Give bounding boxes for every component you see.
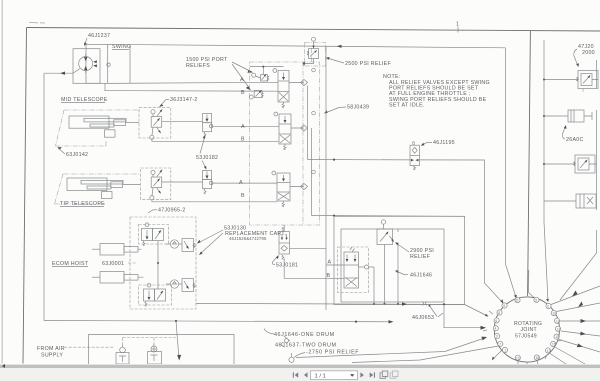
check diamond sec3 [290,184,308,190]
joint ports right column [546,303,551,308]
joint port numbers [495,298,561,360]
2900 PSI relief valve [381,220,385,224]
hoist cartridge 1 [170,240,178,248]
2500 PSI relief valve enclosure [305,43,326,67]
drop from winch box corner to port8 [465,305,488,317]
port relief B swing [254,90,262,97]
right relief valve 1 [578,71,598,89]
toolbar last-page button [370,372,374,377]
one/two drum tick marks [284,336,290,342]
wire to port4 [444,304,485,328]
winch valve dashed box [338,247,369,293]
winch valve port circle [365,265,369,269]
right relief valve 3 [575,155,595,173]
right column vertical [560,60,597,300]
hoist cylinder 1 [100,244,124,256]
bank spool section 1 [278,71,289,103]
wire tip rod to CB [123,184,140,186]
drop line to joint port10 [506,264,517,298]
drop to bottom left [176,321,179,359]
air supply box [89,335,235,365]
toolbar rotate icon 2 [390,371,398,378]
wire to port3 gauge line [296,338,486,358]
bank internal right rails [308,86,312,216]
joint ports bottom [515,355,520,360]
bank spool section 3 [277,173,290,201]
swing pump aux box [86,44,108,83]
viewer left edge line [1,0,3,364]
bottom rail y304 [196,303,465,304]
hoist cartridge 2 [170,280,178,288]
toolbar next button [360,372,375,377]
joint ports left column [493,297,560,360]
toolbar page box [311,371,358,380]
horizontal scrollbar strip [0,364,600,370]
hoist valve B dashed sub-box [139,285,172,305]
winch directional valve [344,252,359,288]
tip CB valve dashed box [141,168,171,200]
toolbar background [0,368,600,381]
left supply drop wire [43,73,45,320]
toolbar rotate icon 1 [380,371,388,378]
mid CB valve dashed box [139,108,171,138]
pressure gauge [289,357,294,362]
pump control arrows [93,60,97,63]
bottom rail y320 [44,321,391,322]
wire bank to 46J1195 to drop [308,160,503,303]
hoist valve B body [144,289,155,301]
wire 53J0182b to bank sec3 [212,182,277,184]
right fan line 1 [551,286,600,305]
leader to pump [85,38,88,45]
port1 line out [493,350,503,360]
wire tip CB to 53J0182b [162,181,203,183]
right fan line 6 [555,347,585,364]
toolbar first-page button [293,372,308,377]
wire 53J0182 to bank sec2 [212,125,279,127]
right fan line 3 [560,320,600,322]
swing section rail [250,67,284,75]
wire sec3 B [152,200,277,202]
rotating joint circle [494,297,559,362]
right component 4 [576,194,596,208]
hoist cylinder 2 [100,272,124,284]
pump circle [79,57,93,71]
big enclosure box [326,46,506,310]
joint hatch marks [483,311,562,359]
right fan line 5 [559,340,600,353]
port7 line out [352,346,501,363]
right fan line 7 [550,354,566,365]
pump flow arrows [84,57,88,62]
orifice 46J0653 [423,302,427,306]
tip boom outline [55,174,141,204]
tip telescope cylinder [67,178,107,190]
53J0182 valve upper [203,114,212,123]
right component 2 [568,110,584,122]
air valve 2 [148,352,162,365]
mid boom lower block [105,130,116,137]
wire B to winch valve [284,259,344,279]
right fan line 4 [561,331,600,336]
wire rod to CB valve [126,122,139,124]
hoist valve A body [142,229,153,241]
right fan line 2 [557,303,600,312]
wire link rail to A [129,45,131,84]
page frame top border [27,28,600,32]
wire A to winch valve [290,249,345,265]
winch outer box [334,216,465,304]
check diamond sec1 [289,80,308,86]
tiny print top-left [29,22,45,25]
hoist assembly dashed box [130,217,196,309]
mid boom outline [56,110,141,146]
joint ports top [515,298,520,303]
wire CB to 53J0182 valve [162,121,203,123]
pump outlet wire left [44,69,80,74]
hoist internal wires [157,241,159,289]
bank spool section 2 [279,114,291,144]
swing pump box [73,49,100,84]
toolbar prev button [304,372,308,377]
check diamond sec2 [291,125,308,131]
53J0182 valve lower [203,171,212,180]
bank right port circles [312,68,316,72]
zone tick 1 [457,27,459,33]
mid telescope cylinder [69,116,109,128]
wire B swing section [105,83,278,91]
port relief A swing [261,75,268,81]
mid CB valve body [151,117,162,128]
winch wires [397,229,399,304]
wire A swing section [108,82,278,83]
toolbar page dropdown arrow [350,374,354,377]
svg-text:1 / 1: 1 / 1 [315,373,326,379]
right bus vertical [544,40,548,301]
scrollbar left arrow [2,364,5,368]
joint bottom stubs [518,361,538,365]
2500 PSI relief valve [309,49,319,59]
swing top wire to relief rail [108,44,506,47]
wire bank y215 to winch box [312,215,465,218]
right bus stubs [544,80,573,202]
valve bank chain boundary [250,62,320,225]
winch inner box [341,229,444,302]
page fold line right [528,31,531,296]
wire sec2 B [152,139,279,141]
wire to joint port 5 [529,270,535,298]
hoist valve A dashed sub-box [139,225,169,245]
page frame left border [23,28,27,364]
air valve 1 [116,353,129,365]
tip CB valve body [151,177,162,188]
